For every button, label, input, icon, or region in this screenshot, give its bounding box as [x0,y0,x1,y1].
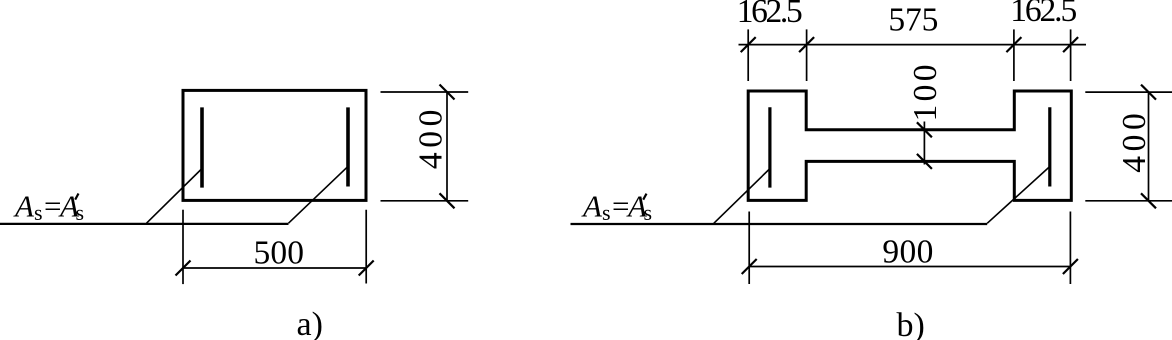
tick 900 right [1063,259,1078,274]
svg-text:A: A [581,189,603,224]
tick 900 left [742,259,757,274]
400a dimension line [446,92,448,201]
svg-text:575: 575 [888,2,938,39]
top dimension line (162.5/575/162.5) [739,44,1087,46]
svg-text:900: 900 [882,234,933,271]
leader diagonal a to right rebar [289,166,349,223]
leader horizontal b [571,223,988,225]
svg-text:162.5: 162.5 [737,0,803,30]
leader diagonal b to right rebar [987,167,1050,224]
500 dimension line [183,267,366,269]
tick 500 right [359,261,374,276]
rebar b-right [1048,107,1051,186]
tick top dim 1 [741,37,756,52]
leader horizontal a [0,223,289,225]
tick 100 bottom [917,154,932,169]
900 dimension line [749,266,1070,268]
svg-text:=: = [612,189,629,224]
900 extension right [1069,212,1071,285]
tick 100 top [917,122,932,137]
tick 400a top [440,85,455,100]
svg-text:400: 400 [1116,113,1153,173]
section outline b [748,91,1071,200]
top extension line 3 [1013,29,1015,81]
tick 400b top [1141,85,1156,100]
svg-text:100: 100 [907,65,944,122]
leader diagonal b to left rebar [714,169,770,224]
500 extension line left [182,210,184,284]
svg-text:400: 400 [412,110,449,170]
svg-text:=: = [44,189,61,224]
svg-text:s: s [34,200,43,225]
svg-text:500: 500 [254,235,305,272]
label As=A's (a) [13,189,84,225]
svg-text:b): b) [897,307,925,340]
svg-text:a): a) [297,306,323,340]
400b extension top [1085,91,1172,93]
leader diagonal a to left rebar [147,169,202,223]
top extension line 2 [806,29,808,81]
svg-text:s: s [76,200,85,225]
tick top dim 4 [1063,37,1078,52]
400a extension top [381,91,469,93]
svg-text:162.5: 162.5 [1010,0,1077,29]
500 extension line right [365,210,367,284]
svg-text:s: s [644,200,653,225]
rebar a-left [200,107,204,187]
top extension line 4 [1070,29,1072,81]
rebar b-left [768,107,771,187]
top extension line 1 [747,29,749,81]
400a extension bottom [381,200,469,202]
svg-text:A: A [13,189,35,224]
400b extension bottom [1085,200,1172,202]
tick top dim 3 [1006,37,1021,52]
400b dimension line [1148,92,1150,201]
section outline a [183,90,366,200]
tick top dim 2 [799,37,814,52]
rebar a-right [346,107,350,186]
tick 400b bottom [1141,193,1156,208]
svg-text:s: s [602,200,611,225]
label As=A's (b) [581,189,652,225]
100 dimension line [923,122,925,165]
900 extension left [748,212,750,285]
tick 400a bottom [440,193,455,208]
tick 500 left [176,261,191,276]
